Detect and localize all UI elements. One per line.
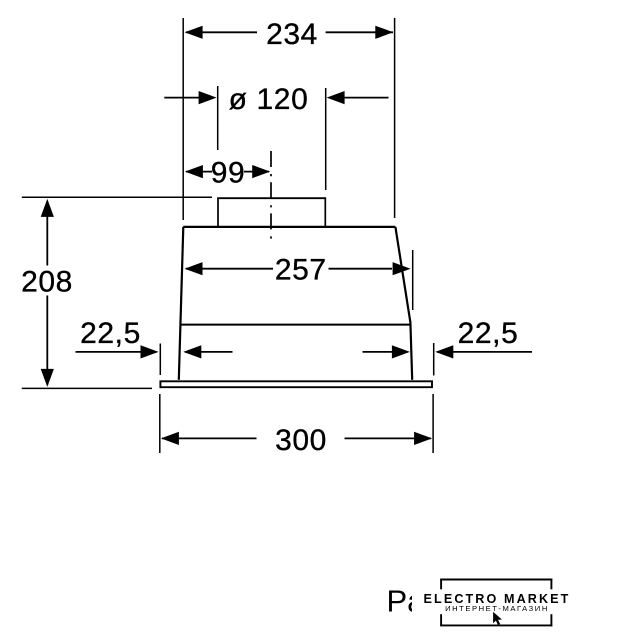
- svg-text:257: 257: [275, 254, 327, 287]
- dimension 234 line: [185, 26, 394, 39]
- dimension 257 label: [275, 254, 327, 287]
- hood body separator line: [180, 324, 411, 326]
- svg-text:22,5: 22,5: [458, 317, 519, 350]
- dimension 208 label: [21, 265, 73, 298]
- svg-text:ИНТЕРНЕТ-МАГАЗИН: ИНТЕРНЕТ-МАГАЗИН: [445, 604, 549, 613]
- dimension 22,5 left line: [76, 345, 159, 358]
- dimension 257 extension line right: [412, 250, 414, 310]
- dimension 300 line: [161, 432, 432, 445]
- svg-text:99: 99: [211, 156, 246, 189]
- dimension 300 label: [275, 424, 327, 457]
- logo text ELECTRO MARKET: [424, 592, 571, 606]
- dimension 208 line: [41, 199, 54, 387]
- dimension ø120 tick right: [325, 88, 327, 190]
- dimension ø120 label: [229, 83, 309, 116]
- duct collar: [217, 198, 326, 227]
- dimension 99 line: [185, 165, 270, 178]
- bottom flange: [160, 381, 432, 387]
- dimension 300 extension line right: [432, 394, 434, 453]
- svg-text:ø 120: ø 120: [229, 83, 309, 116]
- hood body outline: [179, 227, 412, 380]
- logo subtext: [445, 604, 549, 613]
- dimension ø120 line right: [327, 91, 389, 104]
- svg-text:22,5: 22,5: [80, 317, 141, 350]
- dimension 22,5 right extension line: [433, 343, 435, 376]
- logo box border: [440, 579, 552, 627]
- dimension ø120 line left: [164, 91, 216, 104]
- dimension 234 label: [266, 18, 318, 51]
- svg-text:234: 234: [266, 18, 318, 51]
- watermark text Pa: [387, 584, 426, 619]
- dimension ø120 tick left: [217, 86, 219, 150]
- dimension 257 line: [185, 262, 411, 275]
- dimension 22,5 left extension line: [159, 344, 161, 376]
- logo white band: [412, 588, 572, 614]
- dimension 234 extension line right: [394, 18, 396, 218]
- dimension 208 reference line bottom: [22, 387, 152, 389]
- svg-text:208: 208: [21, 265, 73, 298]
- dimension 22,5 left label: [80, 317, 141, 350]
- dimension 99 label: [211, 156, 246, 189]
- cursor pointer icon: [493, 612, 502, 625]
- centerline of duct: [270, 151, 272, 240]
- dimension 300 extension line left: [159, 394, 161, 453]
- dimension 22,5 left inner arrow: [183, 345, 232, 358]
- svg-text:300: 300: [275, 424, 327, 457]
- dimension 22,5 right inner arrow: [363, 345, 410, 358]
- dimension 208 reference line top: [22, 196, 212, 198]
- dimension 234 extension line left: [182, 18, 184, 220]
- dimension 22,5 right label: [458, 317, 519, 350]
- dimension 22,5 right line: [435, 345, 532, 358]
